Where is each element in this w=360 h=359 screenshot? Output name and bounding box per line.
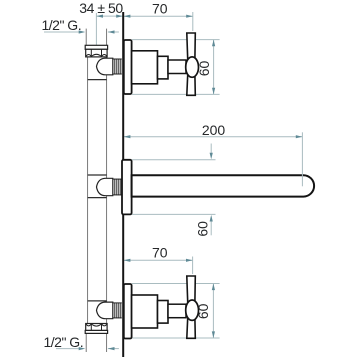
svg-text:1/2" G.: 1/2" G. [41,17,81,33]
svg-text:60: 60 [195,303,211,319]
svg-text:70: 70 [152,1,168,17]
svg-text:70: 70 [152,244,168,260]
svg-text:1/2" G.: 1/2" G. [43,334,83,350]
svg-text:200: 200 [202,122,226,138]
svg-text:60: 60 [196,61,212,77]
svg-text:60: 60 [195,221,211,237]
svg-text:34 ± 50: 34 ± 50 [79,0,123,16]
